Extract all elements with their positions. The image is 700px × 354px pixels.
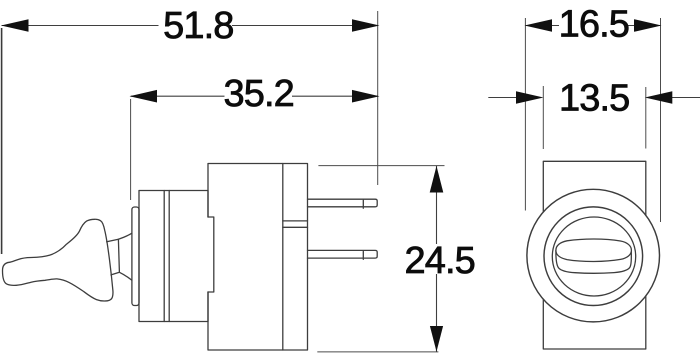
terminal pin 1 hole tick [362,200,364,208]
svg-text:16.5: 16.5 [559,4,629,46]
arrowhead 51.8 right [352,19,380,32]
dimension line 51.8 left segment [2,25,159,27]
terminal pin 2 [308,250,378,258]
toggle lever [3,219,113,301]
bushing circle [544,207,643,306]
switch body [208,164,308,351]
extension line 16.5 right [660,18,662,222]
terminal pin 1 [308,199,378,207]
rotor knob circle [552,217,635,296]
arrowhead 13.5 right (pointing left) [645,91,673,104]
svg-text:51.8: 51.8 [163,5,233,47]
extension line 16.5 left [524,18,526,211]
dimension line 16.5 right segment [628,25,660,27]
arrowhead 24.5 up [430,166,444,193]
panel seam line 2 [168,191,170,322]
arrowhead 16.5 right [634,19,662,32]
terminal pin 2 hole tick [362,251,364,259]
arrowhead 51.8 left [1,19,29,32]
body seam horizontal 2 [283,226,308,228]
extension line 51.8/35.2 right [377,11,379,185]
lever neck [107,239,120,275]
arrowhead 16.5 left [525,19,553,32]
front view mounting plate [543,161,646,349]
dimension line 13.5 right outside segment [670,97,700,99]
knob bar lower band [556,251,631,274]
dimension line 16.5 left segment [526,25,559,27]
svg-text:24.5: 24.5 [405,240,475,282]
dimension line 24.5 top segment [436,166,438,244]
panel seam line 1 [163,191,165,322]
dimension line 35.2 left segment [131,95,225,97]
extension line 51.8 left [1,28,3,254]
body notch [208,217,214,292]
body seam vertical [282,164,284,351]
bushing flange [132,207,139,306]
svg-text:35.2: 35.2 [224,73,294,115]
extension line 24.5 top [318,165,444,167]
extension line 13.5 left [542,86,544,149]
arrowhead 35.2 right [352,90,380,103]
lever boot cone [118,233,131,280]
svg-text:13.5: 13.5 [559,78,629,120]
extension line 13.5 right [645,87,647,149]
dimension line 51.8 right segment [232,25,378,27]
extension line 24.5 bottom [317,351,438,353]
arrowhead 13.5 left (pointing right) [516,91,544,104]
dimension line 24.5 bottom segment [436,274,438,352]
arrowhead 35.2 left [130,90,158,103]
extension line 35.2 left [130,99,132,200]
dimension line 35.2 right segment [292,95,378,97]
bezel circle [527,189,660,322]
dimension line 13.5 left outside segment [488,97,518,99]
front panel plate [139,191,208,322]
body seam horizontal 1 [283,220,308,222]
knob bar top face [556,239,632,262]
arrowhead 24.5 down [430,326,443,352]
